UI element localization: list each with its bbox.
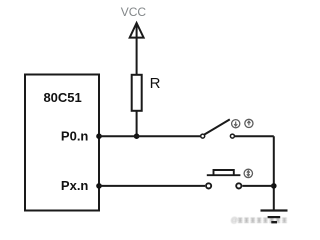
svg-text:VCC: VCC [121,5,147,19]
svg-text:Px.n: Px.n [61,178,89,193]
svg-text:R: R [150,75,161,92]
svg-text:P0.n: P0.n [61,129,89,144]
svg-text:80C51: 80C51 [43,90,81,105]
svg-text:@: @ [231,216,238,225]
